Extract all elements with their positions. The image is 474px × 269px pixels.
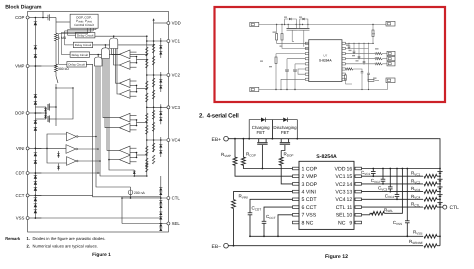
- pin 8 NC: [293, 220, 314, 226]
- svg-text:11: 11: [347, 205, 352, 211]
- body diode D1 (app): [285, 18, 297, 25]
- terminal EB-: [212, 243, 229, 250]
- diode P4 reference: [133, 170, 147, 177]
- battery cell 1: [437, 172, 442, 174]
- label Charging FET: [252, 125, 270, 135]
- connector top-right (app): [386, 21, 395, 26]
- battery cell 5: [437, 202, 442, 204]
- capacitor C1 (app): [285, 59, 305, 91]
- delay circuit 2: [73, 42, 92, 47]
- svg-text:Numerical values are typical v: Numerical values are typical values.: [33, 244, 98, 249]
- red highlight rectangle: [215, 7, 446, 102]
- svg-text:RCOP: RCOP: [246, 152, 256, 158]
- resistors RVC bank (app): [375, 52, 387, 64]
- or-gate G3: [94, 55, 102, 66]
- wire DOP row: [35, 107, 47, 119]
- wire FET gates to IC (app): [292, 41, 294, 43]
- IC U7 S-8254A (app): [305, 40, 345, 82]
- svg-text:Figure 1: Figure 1: [92, 252, 111, 258]
- svg-text:1 MΩ: 1 MΩ: [58, 36, 67, 40]
- capacitor CCCT: [262, 207, 293, 237]
- pin COP: [15, 15, 29, 20]
- svg-text:VC3: VC3: [172, 105, 181, 110]
- capacitor CVC2: [371, 169, 386, 185]
- pin CDT: [16, 171, 30, 176]
- resistor RSENSE: [409, 239, 440, 247]
- pin CCT: [16, 193, 30, 198]
- svg-text:CVC3: CVC3: [378, 186, 388, 192]
- IC outline box: [28, 11, 169, 232]
- clamp diode pairs VC: [159, 38, 162, 157]
- section: Block Diagram (Figure 1): [5, 4, 180, 257]
- resistor RVINI: [232, 192, 293, 247]
- transistor M2 (DOP): [35, 90, 56, 111]
- clamp diode pairs CTL SEL: [159, 176, 162, 231]
- comparator trio current-sense C: [67, 157, 79, 166]
- parasitic diodes column: [34, 17, 37, 219]
- resistor RVMP: [221, 139, 293, 177]
- capacitor CVC1: [361, 169, 376, 178]
- svg-text:CTL: CTL: [336, 205, 346, 211]
- wire gate G3 input chimney: [95, 66, 147, 187]
- svg-text:Delay Circuit: Delay Circuit: [77, 34, 94, 38]
- wire CTL row: [122, 197, 167, 199]
- svg-text:16: 16: [347, 166, 353, 172]
- resistor RVC2: [411, 178, 441, 185]
- resistor R1 (app): [276, 25, 309, 44]
- svg-text:VSS: VSS: [16, 216, 25, 221]
- svg-text:S-8254A: S-8254A: [316, 154, 337, 160]
- svg-text:DOP: DOP: [15, 111, 24, 116]
- comparator pair VC2: [119, 79, 147, 99]
- svg-text:CCT: CCT: [16, 193, 25, 198]
- svg-text:4 VINI: 4 VINI: [302, 190, 316, 196]
- wire gate G2 input chimney: [103, 59, 134, 171]
- comparator trio current-sense A: [67, 132, 79, 141]
- resistor RDOP: [279, 151, 293, 184]
- wire gate output rails: [90, 35, 155, 55]
- comparator pair VC1: [119, 50, 147, 69]
- resistor RCOP: [241, 139, 292, 170]
- svg-text:RVC2: RVC2: [411, 178, 421, 184]
- svg-text:S-8254A: S-8254A: [319, 59, 332, 63]
- wire top rail (app): [259, 24, 386, 25]
- pin 2 VMP: [293, 174, 318, 180]
- wire parasitic-diode column: [29, 18, 41, 219]
- battery stack bus: [439, 139, 440, 246]
- svg-text:Delay Circuit: Delay Circuit: [72, 53, 89, 57]
- resistor RVC3: [411, 186, 441, 193]
- charging FET (app): [287, 25, 298, 42]
- resistor RVC1: [411, 171, 441, 178]
- delay circuit 3: [70, 52, 89, 57]
- remark note: [5, 236, 105, 249]
- svg-text:300 kΩ: 300 kΩ: [58, 67, 69, 71]
- resistor R3 (app): [275, 54, 305, 91]
- resistor ladder column A: [146, 37, 148, 176]
- svg-text:RVINI: RVINI: [239, 194, 248, 200]
- resistor RVC4: [411, 194, 441, 201]
- section: Figure 12 four-serial cell connection: [212, 118, 460, 261]
- svg-text:SEL: SEL: [336, 213, 346, 219]
- svg-text:RVC3: RVC3: [411, 186, 421, 192]
- charging FET Q1: [257, 139, 267, 169]
- svg-text:SEL: SEL: [172, 221, 181, 226]
- wire VDD row comb (app): [345, 43, 374, 44]
- label Discharging FET: [273, 125, 297, 135]
- svg-text:Figure 12: Figure 12: [325, 254, 348, 260]
- wire SEL row: [121, 197, 167, 223]
- svg-text:CTL: CTL: [450, 205, 460, 211]
- pin VC4: [167, 138, 181, 143]
- wire CCT row: [35, 195, 93, 197]
- wire VDD row to bus: [362, 168, 441, 170]
- comparator pair VC4: [119, 146, 147, 164]
- pin VC1: [167, 39, 181, 44]
- terminal EB+: [212, 136, 229, 143]
- body diode D2 (app): [300, 18, 308, 25]
- pin 1 COP: [293, 166, 318, 172]
- svg-text:2.: 2.: [27, 244, 30, 249]
- or-gate G2: [102, 45, 110, 59]
- svg-text:1.: 1.: [27, 236, 30, 241]
- capacitor CVC4: [385, 169, 400, 201]
- svg-text:CVC1: CVC1: [361, 170, 371, 176]
- resistor RCTL: [362, 202, 441, 209]
- pin VSS: [16, 216, 29, 221]
- wire VC4 row: [362, 198, 424, 200]
- svg-text:RVC4: RVC4: [411, 194, 421, 200]
- reference symbols current comparators: [57, 151, 60, 171]
- svg-text:CCDT: CCDT: [252, 206, 262, 212]
- svg-text:FET: FET: [257, 130, 266, 135]
- svg-text:VC2: VC2: [172, 73, 181, 78]
- svg-text:CVSS: CVSS: [393, 220, 402, 226]
- svg-text:1 COP: 1 COP: [302, 166, 318, 172]
- svg-text:EB+: EB+: [212, 137, 222, 143]
- pin 6 CCT: [293, 205, 318, 211]
- wire negative rail: [228, 245, 423, 247]
- resistor 1 MOhm: [55, 18, 67, 42]
- pin VDD: [167, 21, 181, 26]
- svg-text:VC1: VC1: [172, 39, 181, 44]
- wire VDD feed: [153, 18, 167, 23]
- wire VSS pin to ground rail: [277, 215, 292, 237]
- wire VC rows (app): [345, 43, 375, 64]
- resistor RSEL: [362, 207, 394, 215]
- pin 5 CDT: [293, 197, 318, 203]
- svg-text:VC3: VC3: [335, 190, 345, 196]
- wire CDT row: [35, 172, 100, 174]
- current source 200 nA: [128, 187, 145, 198]
- svg-text:VC1: VC1: [335, 174, 345, 180]
- resistor RSEL (app): [345, 68, 362, 72]
- svg-text:7 VSS: 7 VSS: [302, 213, 317, 219]
- pin 3 DOP: [293, 182, 318, 188]
- svg-text:VC2: VC2: [335, 182, 345, 188]
- wire ground rail VSS: [250, 235, 423, 237]
- comparator trio current-sense B: [66, 145, 78, 154]
- svg-text:Block Diagram: Block Diagram: [5, 4, 42, 10]
- body diode D1: [249, 118, 272, 139]
- pin 12 VC4: [335, 197, 361, 203]
- capacitor CVDD (app): [367, 48, 370, 90]
- svg-text:14: 14: [347, 182, 353, 188]
- connector EB+ (app): [250, 22, 259, 26]
- capacitor comb CVC (app): [348, 43, 366, 64]
- capacitor C2 (app): [293, 64, 305, 90]
- pin 14 VC2: [335, 182, 361, 188]
- connector mid-right 3 (app): [387, 62, 395, 66]
- wire nested control-to-delay feeds: [59, 28, 97, 64]
- svg-text:VMP: VMP: [15, 64, 24, 69]
- transistor M3 (DOP): [35, 107, 56, 126]
- wire VC rows: [146, 40, 167, 141]
- svg-text:EB−: EB−: [212, 244, 222, 250]
- svg-text:RCTL: RCTL: [411, 202, 420, 208]
- pin CTL: [167, 196, 180, 201]
- svg-text:CVC2: CVC2: [371, 178, 381, 184]
- svg-text:CDT: CDT: [16, 171, 25, 176]
- resistor R4 (app): [372, 24, 374, 44]
- wire gate G1 input chimney: [112, 49, 120, 95]
- svg-text:15: 15: [347, 174, 353, 180]
- connector bottom-right (app): [386, 78, 395, 90]
- svg-text:CCCT: CCCT: [266, 214, 276, 220]
- resistor R5 (app): [368, 75, 379, 81]
- connector EB- (app): [250, 87, 259, 91]
- connector mid-right 2 (app): [387, 56, 395, 60]
- pin 16 VDD: [335, 166, 362, 172]
- pin VC3: [167, 105, 181, 110]
- wire COP to control block: [56, 21, 70, 23]
- svg-text:10: 10: [347, 213, 353, 219]
- wire positive rail: [228, 138, 438, 140]
- svg-text:2 VMP: 2 VMP: [302, 174, 318, 180]
- delay circuit 4: [67, 62, 86, 67]
- wire delay4 feed: [86, 64, 161, 197]
- svg-text:NC: NC: [338, 220, 346, 226]
- capacitor CVSS: [393, 220, 410, 237]
- svg-text:Delay Circuit: Delay Circuit: [68, 63, 85, 67]
- svg-text:VDD: VDD: [335, 166, 346, 172]
- pin 15 VC1: [335, 174, 361, 180]
- wire VDD bypass vertical: [406, 169, 408, 221]
- transistor M1 (COP switch): [42, 11, 57, 20]
- section: red highlighted application schematic: [215, 7, 446, 102]
- svg-text:3 DOP: 3 DOP: [302, 182, 318, 188]
- svg-text:VINI: VINI: [16, 146, 24, 151]
- svg-text:VDD: VDD: [172, 21, 181, 26]
- svg-text:Control Circuit: Control Circuit: [74, 23, 94, 27]
- wire VC1 row: [362, 175, 424, 177]
- battery cell 3: [437, 187, 442, 189]
- resistor ladder column B: [152, 20, 154, 164]
- svg-text:200 nA: 200 nA: [134, 191, 145, 195]
- svg-text:6 CCT: 6 CCT: [302, 205, 318, 211]
- svg-text:RSENSE: RSENSE: [409, 239, 423, 245]
- wire bottom rail (app): [259, 89, 388, 90]
- svg-text:CVC4: CVC4: [385, 193, 395, 199]
- resistor RVSS: [413, 230, 441, 239]
- pin 13 VC3: [335, 190, 361, 196]
- body diode D2: [272, 118, 297, 139]
- pin VINI: [16, 146, 29, 151]
- pin VC2: [167, 73, 181, 78]
- svg-text:RVSS: RVSS: [413, 230, 422, 236]
- svg-text:RVC1: RVC1: [411, 171, 421, 177]
- connector mid-right 1 (app): [387, 51, 395, 55]
- resistor RVSS (app): [345, 74, 353, 84]
- svg-text:COP: COP: [15, 15, 24, 20]
- svg-text:5 CDT: 5 CDT: [302, 197, 318, 203]
- pin 9 NC: [338, 220, 362, 226]
- terminal CTL: [440, 205, 459, 211]
- capacitor CVSS (app): [361, 72, 364, 90]
- svg-text:Delay Circuit: Delay Circuit: [75, 43, 92, 47]
- pin 11 CTL: [336, 205, 362, 211]
- pin DOP: [15, 111, 29, 116]
- wire VINI row: [35, 134, 67, 163]
- svg-text:Remark: Remark: [5, 236, 21, 241]
- discharging FET Q2: [280, 139, 290, 151]
- svg-text:13: 13: [347, 190, 353, 196]
- pin SEL: [167, 221, 180, 226]
- pin 10 SEL: [336, 213, 362, 219]
- control circuit block: [70, 14, 98, 28]
- diode D-M2: [44, 107, 47, 119]
- svg-text:CTL: CTL: [172, 196, 181, 201]
- wire VMP to divider: [35, 65, 56, 67]
- micro labels (app): [260, 17, 379, 79]
- svg-text:VC4: VC4: [172, 138, 181, 143]
- pin VMP: [15, 64, 29, 69]
- svg-text:12: 12: [347, 197, 353, 203]
- svg-text:RSEL: RSEL: [384, 207, 393, 213]
- capacitor CVC3: [378, 169, 393, 193]
- discharging FET (app): [298, 25, 309, 47]
- wire trio outputs: [77, 137, 100, 162]
- battery cell 4: [437, 195, 442, 197]
- pin 4 VINI: [293, 190, 316, 196]
- wire VC3 row: [362, 191, 424, 193]
- battery cell 2: [437, 179, 442, 181]
- or-gate G1: [110, 36, 118, 48]
- svg-text:FET: FET: [281, 130, 290, 135]
- resistor R2 (app): [281, 25, 309, 49]
- IC S-8254A outline: [299, 154, 354, 229]
- svg-text:VC4: VC4: [335, 197, 345, 203]
- svg-text:8 NC: 8 NC: [302, 220, 314, 226]
- svg-text:9: 9: [349, 220, 352, 226]
- svg-text:U7: U7: [323, 54, 327, 58]
- switch S1: [56, 72, 58, 90]
- wire VSS row: [35, 217, 162, 219]
- comparator pair VC3: [119, 113, 147, 132]
- delay circuit 1: [76, 33, 95, 38]
- wire SEL pullup vertical: [384, 169, 402, 214]
- wire bottom pins (app): [281, 69, 305, 90]
- svg-text:RDOP: RDOP: [284, 152, 294, 158]
- svg-text:2. 4-serial Cell: 2. 4-serial Cell: [199, 113, 239, 120]
- svg-text:RVMP: RVMP: [221, 152, 231, 158]
- wire VC2 row: [362, 183, 424, 185]
- resistor 300 kOhm: [55, 41, 70, 72]
- pin 7 VSS: [293, 213, 317, 219]
- capacitor CCDT: [248, 199, 293, 237]
- svg-text:Diodes in the figure are paras: Diodes in the figure are parasitic diode…: [33, 236, 106, 241]
- wire divider to DOP stage: [55, 87, 73, 119]
